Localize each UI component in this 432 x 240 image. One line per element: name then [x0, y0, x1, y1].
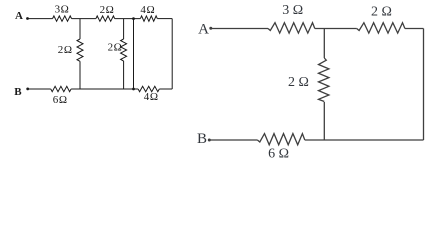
svg-text:B: B [14, 86, 22, 98]
wire 2Ω to 4Ω (left top) [115, 18, 141, 20]
wire vertical branch 3 (left, plain) [133, 19, 135, 89]
node A (right circuit terminal) [209, 27, 212, 30]
wire A to 3Ω (right top) [211, 28, 268, 30]
node B (right circuit terminal) [208, 139, 211, 142]
vertical branch 1 lead top (left) [79, 19, 81, 39]
svg-text:3 Ω: 3 Ω [282, 3, 303, 18]
svg-text:2Ω: 2Ω [100, 4, 115, 16]
svg-text:2Ω: 2Ω [108, 42, 123, 54]
vertical 2Ω lead bottom (right) [323, 102, 325, 140]
resistor 3Ω (right circuit top left) [268, 23, 315, 33]
resistor 6Ω (left circuit bottom) [51, 86, 71, 91]
resistor 2Ω (right circuit top right) [357, 23, 405, 33]
wire right edge (right circuit) [423, 29, 425, 141]
wire 4Ω to top-right corner (left) [157, 18, 172, 20]
wire right edge (left circuit) [171, 19, 173, 89]
svg-text:2Ω: 2Ω [58, 44, 73, 56]
resistor 4Ω (left circuit top right) [140, 16, 157, 21]
resistor 4Ω (left circuit bottom) [138, 86, 159, 91]
svg-text:B: B [197, 131, 207, 147]
svg-text:2 Ω: 2 Ω [371, 4, 392, 19]
wire 4Ω to bottom-right corner (left) [159, 88, 172, 90]
resistor 3Ω (left circuit top) [53, 16, 72, 21]
node B (left circuit terminal) [26, 88, 29, 91]
wire 3Ω to 2Ω (right top) [315, 28, 357, 30]
wire 2Ω to top-right corner (right) [405, 28, 424, 30]
wire 6Ω to bottom-right corner (right) [305, 139, 424, 141]
junction node top of branch 3 [132, 17, 135, 20]
wire 6Ω to 4Ω (left bottom) [71, 88, 138, 90]
wire B to 6Ω (right bottom) [209, 139, 257, 141]
resistor 6Ω (right circuit bottom) [257, 134, 304, 145]
vertical branch 1 lead bottom (left) [79, 61, 81, 89]
svg-text:6 Ω: 6 Ω [268, 146, 289, 161]
svg-text:4Ω: 4Ω [140, 4, 155, 16]
wire B to 6Ω (left bottom) [28, 88, 51, 90]
vertical branch 2 lead bottom (left) [123, 61, 125, 89]
resistor 2Ω (left circuit vertical 1) [77, 39, 83, 61]
svg-text:A: A [198, 22, 209, 38]
svg-text:3Ω: 3Ω [55, 4, 70, 16]
wire A to 3Ω (left top) [28, 18, 53, 20]
resistor 2Ω (right circuit vertical) [319, 58, 329, 102]
resistor 2Ω (left circuit vertical 2) [121, 39, 127, 61]
vertical 2Ω lead top (right) [323, 29, 325, 59]
svg-text:6Ω: 6Ω [53, 94, 68, 106]
resistor 2Ω (left circuit top middle) [96, 16, 115, 21]
svg-text:2 Ω: 2 Ω [288, 75, 309, 90]
svg-text:A: A [15, 10, 23, 22]
vertical branch 2 lead top (left) [123, 19, 125, 39]
wire 3Ω to 2Ω (left top) [72, 18, 96, 20]
svg-text:4Ω: 4Ω [144, 91, 159, 103]
node A (left circuit terminal) [26, 17, 29, 20]
junction node bottom of branch 3 [132, 88, 135, 91]
